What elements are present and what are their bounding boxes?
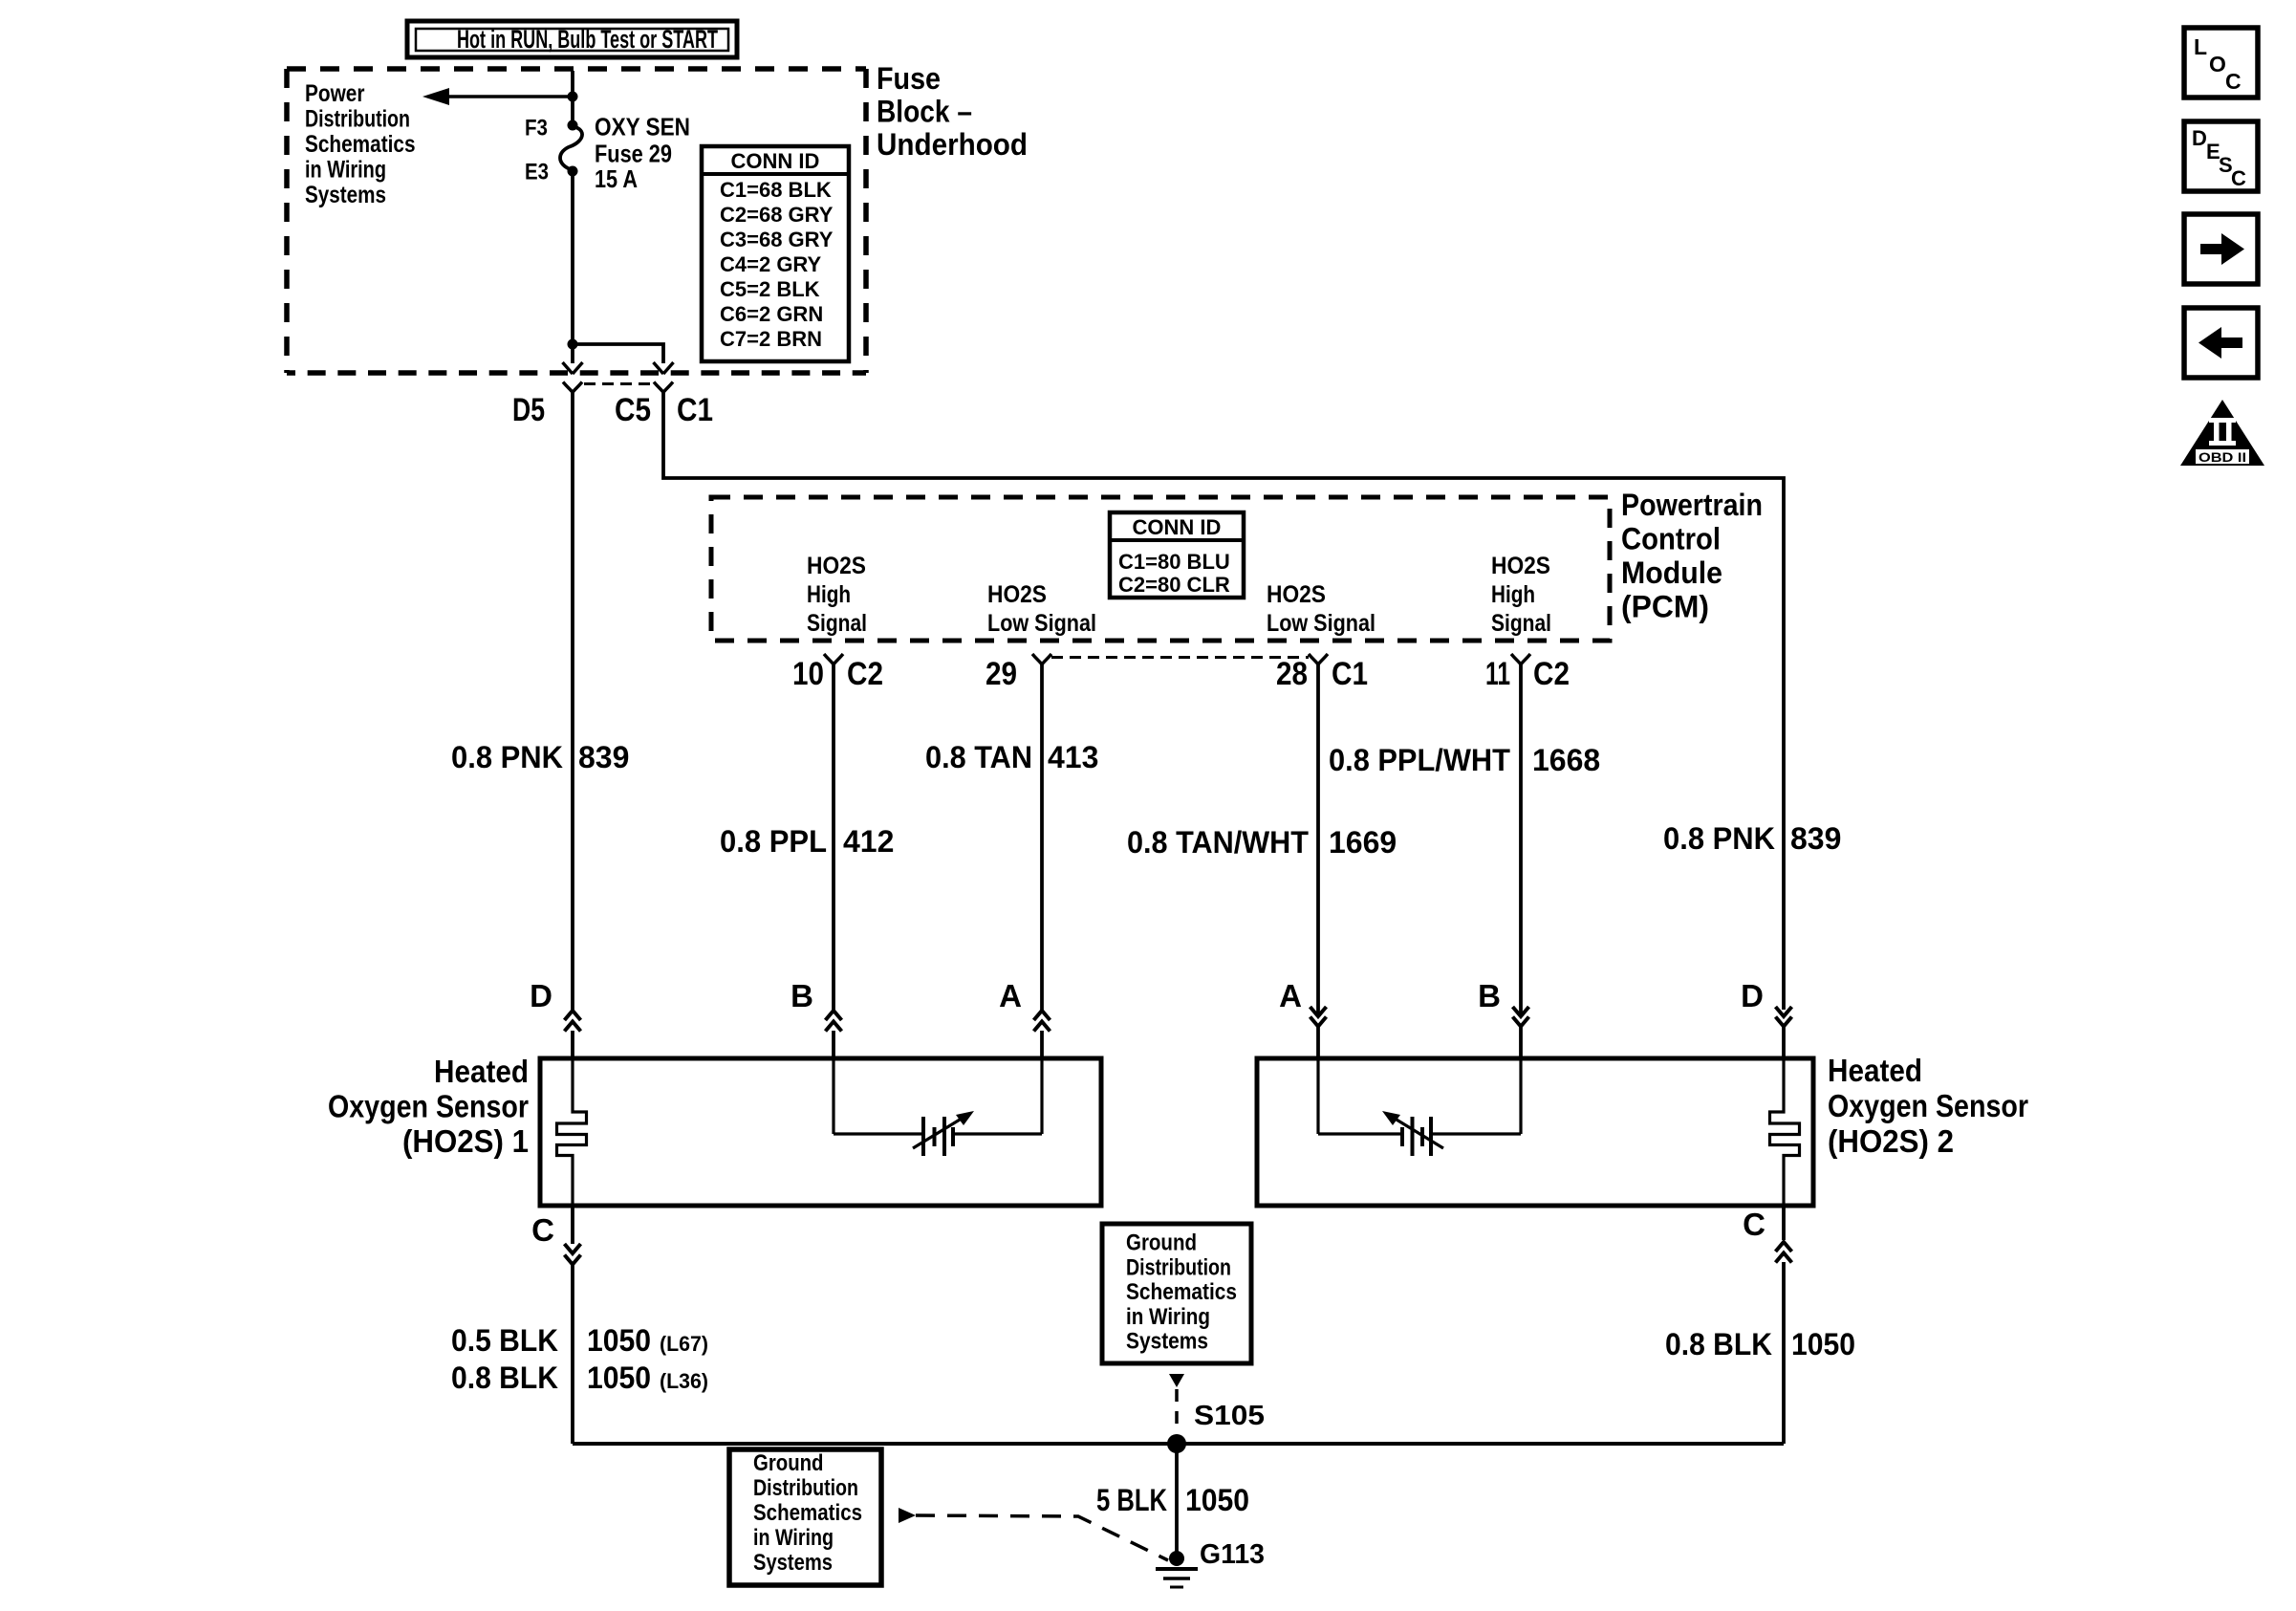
icon box right-arrow bbox=[2184, 214, 2258, 284]
svg-text:1050: 1050 bbox=[1791, 1327, 1855, 1361]
fuse block CONN ID table bbox=[702, 146, 849, 361]
svg-text:C1=80 BLU: C1=80 BLU bbox=[1118, 550, 1230, 574]
open arrow at fuse block exit (left) bbox=[563, 362, 583, 374]
svg-text:C5: C5 bbox=[615, 392, 651, 428]
fuse block underhood dashed box bbox=[287, 66, 866, 72]
wire: HO2S2 C ground lead bbox=[1782, 1206, 1786, 1240]
wire: HO2S1 C ground lead bbox=[571, 1206, 574, 1244]
PCM pin 29 connector fork bbox=[1032, 654, 1051, 664]
svg-text:Powertrain: Powertrain bbox=[1621, 488, 1763, 522]
wire: to fuse block exit D5 bbox=[571, 344, 574, 363]
svg-text:Schematics: Schematics bbox=[1126, 1279, 1237, 1305]
svg-text:Heated: Heated bbox=[434, 1054, 529, 1089]
svg-text:11: 11 bbox=[1485, 656, 1510, 692]
svg-text:Power: Power bbox=[305, 80, 365, 107]
svg-text:C7=2 BRN: C7=2 BRN bbox=[720, 327, 822, 351]
HO2S2 cell wire to B bbox=[1433, 1132, 1521, 1135]
svg-text:A: A bbox=[999, 978, 1022, 1013]
svg-text:Underhood: Underhood bbox=[877, 127, 1028, 162]
wire: hot feed into fuse F29 bbox=[571, 71, 574, 125]
HO2S1 cell wire to A bbox=[954, 1132, 1042, 1135]
PCM pin 28 C1 connector fork bbox=[1309, 654, 1328, 664]
svg-text:0.8 PPL/WHT: 0.8 PPL/WHT bbox=[1329, 743, 1510, 777]
reference arrowhead down from ground note bbox=[1169, 1374, 1184, 1387]
svg-text:CONN ID: CONN ID bbox=[1133, 515, 1222, 539]
junction dot fuse output branch bbox=[568, 339, 578, 350]
svg-text:C1: C1 bbox=[677, 392, 713, 428]
HO2S1 cell wire from B bbox=[832, 1058, 834, 1134]
dashed connector bracket D5-C5 bbox=[584, 382, 653, 385]
svg-text:in Wiring: in Wiring bbox=[305, 157, 386, 184]
Heated Oxygen Sensor (HO2S) 1 box bbox=[540, 1058, 1101, 1206]
svg-text:Signal: Signal bbox=[807, 610, 867, 637]
svg-text:B: B bbox=[1478, 978, 1501, 1013]
svg-text:C: C bbox=[2225, 69, 2242, 94]
wire: 0.8 PNK 839 from D5 to HO2S1 heater D bbox=[571, 393, 574, 1011]
svg-text:C5=2 BLK: C5=2 BLK bbox=[720, 277, 820, 301]
splice S105 junction dot bbox=[1167, 1434, 1186, 1453]
svg-text:(L67): (L67) bbox=[660, 1332, 708, 1356]
svg-text:Distribution: Distribution bbox=[305, 106, 410, 133]
svg-text:Oxygen Sensor: Oxygen Sensor bbox=[1828, 1088, 2028, 1123]
dashed connector bracket 29-28 bbox=[1051, 656, 1309, 659]
svg-text:C2=80 CLR: C2=80 CLR bbox=[1118, 573, 1230, 597]
svg-text:0.8 BLK: 0.8 BLK bbox=[1665, 1327, 1772, 1361]
wire: 0.8 TAN/WHT 1669 HO2S2 low signal bbox=[1316, 664, 1320, 1013]
svg-text:HO2S: HO2S bbox=[987, 581, 1047, 608]
svg-text:0.8 PNK: 0.8 PNK bbox=[1663, 821, 1775, 856]
svg-text:Schematics: Schematics bbox=[305, 131, 416, 158]
svg-text:C2: C2 bbox=[1533, 656, 1570, 692]
Powertrain Control Module dashed box bbox=[711, 497, 1610, 641]
svg-text:Block –: Block – bbox=[877, 95, 972, 129]
svg-text:(L36): (L36) bbox=[660, 1369, 708, 1393]
svg-text:F3: F3 bbox=[525, 116, 548, 142]
wire: 0.8 TAN 413 HO2S low signal bbox=[1040, 664, 1044, 1010]
svg-text:0.5 BLK: 0.5 BLK bbox=[451, 1323, 558, 1358]
svg-text:1050: 1050 bbox=[587, 1361, 651, 1395]
HO2S2 variability arrow (up-left) bbox=[1392, 1117, 1443, 1148]
wire: 5 BLK 1050 to ground G113 bbox=[1175, 1444, 1179, 1558]
PCM pin 10 C2 connector fork bbox=[824, 654, 843, 664]
svg-text:D: D bbox=[1741, 978, 1764, 1013]
svg-text:OBD II: OBD II bbox=[2199, 449, 2246, 465]
svg-text:839: 839 bbox=[578, 740, 629, 774]
dashed reference link to G113 bbox=[916, 1515, 1168, 1560]
svg-text:0.8 TAN: 0.8 TAN bbox=[925, 740, 1032, 774]
svg-text:0.8 PPL: 0.8 PPL bbox=[720, 824, 827, 859]
svg-text:B: B bbox=[791, 978, 813, 1013]
HO2S2 heater element bbox=[1770, 1058, 1800, 1206]
svg-text:A: A bbox=[1279, 978, 1302, 1013]
wire stub into HO2S2 D terminal bbox=[1782, 1027, 1786, 1058]
svg-text:(HO2S) 2: (HO2S) 2 bbox=[1828, 1123, 1954, 1159]
terminal E3 dot bbox=[568, 166, 578, 177]
note box: Ground Distribution Schematics in Wiring Systems (upper) bbox=[1102, 1224, 1251, 1363]
svg-text:L: L bbox=[2194, 34, 2207, 59]
svg-text:Systems: Systems bbox=[1126, 1329, 1208, 1355]
svg-text:Ground: Ground bbox=[753, 1450, 824, 1476]
svg-text:Oxygen Sensor: Oxygen Sensor bbox=[328, 1089, 529, 1124]
svg-text:Systems: Systems bbox=[753, 1550, 833, 1576]
svg-text:Ground: Ground bbox=[1126, 1230, 1197, 1256]
right arrow glyph bbox=[2200, 233, 2244, 265]
ground symbol G113 hash bars bbox=[1156, 1567, 1198, 1571]
CONN ID table header rule bbox=[702, 172, 849, 176]
icon box left-arrow bbox=[2184, 308, 2258, 378]
svg-text:E3: E3 bbox=[525, 160, 549, 185]
wire: 0.8 PNK 839 from C1 across to HO2S2 D bbox=[663, 393, 1784, 1011]
wire: feed to power distribution (left arrow) bbox=[449, 95, 573, 98]
title box outer border bbox=[407, 21, 737, 57]
svg-text:D: D bbox=[530, 978, 552, 1013]
svg-text:0.8 TAN/WHT: 0.8 TAN/WHT bbox=[1127, 825, 1309, 860]
svg-text:S105: S105 bbox=[1194, 1401, 1265, 1431]
connector fork D5 bbox=[563, 382, 582, 393]
svg-text:OXY SEN: OXY SEN bbox=[595, 113, 690, 142]
svg-text:412: 412 bbox=[843, 824, 894, 859]
svg-text:C: C bbox=[1743, 1207, 1765, 1242]
svg-text:CONN ID: CONN ID bbox=[731, 149, 820, 173]
wire: ground bus 1050 bbox=[573, 1442, 1784, 1446]
ground stud dot G113 bbox=[1169, 1551, 1184, 1566]
svg-text:HO2S: HO2S bbox=[807, 553, 866, 579]
svg-text:D5: D5 bbox=[512, 392, 545, 428]
arrowhead to power distribution bbox=[422, 88, 449, 105]
dashed reference link to S105 bbox=[1175, 1389, 1179, 1433]
note box: Ground Distribution Schematics in Wiring Systems (lower) bbox=[729, 1449, 881, 1585]
svg-text:O: O bbox=[2209, 52, 2226, 76]
svg-text:(PCM): (PCM) bbox=[1621, 590, 1709, 624]
svg-text:Hot in RUN, Bulb Test or START: Hot in RUN, Bulb Test or START bbox=[457, 25, 718, 54]
svg-text:Schematics: Schematics bbox=[753, 1500, 862, 1526]
svg-text:in Wiring: in Wiring bbox=[1126, 1304, 1210, 1330]
reference arrowhead from lower ground note bbox=[899, 1508, 916, 1523]
svg-text:C6=2 GRN: C6=2 GRN bbox=[720, 302, 823, 326]
svg-text:Fuse 29: Fuse 29 bbox=[595, 140, 672, 168]
svg-text:Module: Module bbox=[1621, 555, 1722, 590]
wire stub into HO2S1 D terminal bbox=[571, 1031, 574, 1058]
title box inner border bbox=[416, 29, 728, 51]
svg-text:1050: 1050 bbox=[1185, 1483, 1249, 1517]
svg-text:Systems: Systems bbox=[305, 182, 386, 208]
svg-text:C3=68 GRY: C3=68 GRY bbox=[720, 228, 834, 251]
HO2S2 cell wire from A bbox=[1316, 1058, 1319, 1134]
wire: branch to C1 connector bbox=[573, 344, 663, 363]
PCM CONN ID header rule bbox=[1110, 538, 1244, 542]
svg-text:1668: 1668 bbox=[1532, 743, 1600, 777]
svg-text:C4=2 GRY: C4=2 GRY bbox=[720, 252, 822, 276]
svg-text:Distribution: Distribution bbox=[753, 1475, 858, 1501]
fuse OXY SEN Fuse 29 15A element curve bbox=[560, 126, 582, 170]
icon box DESC bbox=[2184, 121, 2258, 191]
svg-text:0.8 PNK: 0.8 PNK bbox=[451, 740, 563, 774]
svg-text:High: High bbox=[807, 581, 851, 608]
svg-text:HO2S: HO2S bbox=[1267, 581, 1326, 608]
svg-text:G113: G113 bbox=[1200, 1539, 1265, 1570]
svg-text:29: 29 bbox=[986, 656, 1017, 692]
svg-text:Low Signal: Low Signal bbox=[987, 610, 1096, 637]
icon box LOC bbox=[2184, 28, 2258, 98]
junction dot at feed branch bbox=[568, 92, 578, 102]
OBD II triangle icon bbox=[2180, 400, 2264, 466]
svg-text:Signal: Signal bbox=[1491, 610, 1551, 637]
PCM pin 11 C2 connector fork bbox=[1511, 654, 1530, 664]
svg-text:Fuse: Fuse bbox=[877, 61, 941, 96]
svg-text:1669: 1669 bbox=[1329, 825, 1397, 860]
open arrow at fuse block exit (right) bbox=[654, 362, 674, 374]
wire: fuse output down bbox=[571, 171, 574, 344]
PCM CONN ID table bbox=[1110, 512, 1244, 598]
svg-text:C1=68 BLK: C1=68 BLK bbox=[720, 178, 832, 202]
svg-text:(HO2S) 1: (HO2S) 1 bbox=[402, 1123, 529, 1159]
wire: 0.8 PPL/WHT 1668 HO2S2 high signal bbox=[1519, 664, 1523, 1013]
svg-text:Heated: Heated bbox=[1828, 1053, 1922, 1088]
svg-text:HO2S: HO2S bbox=[1491, 553, 1550, 579]
svg-text:C1: C1 bbox=[1332, 656, 1368, 692]
svg-text:5 BLK: 5 BLK bbox=[1096, 1483, 1167, 1517]
svg-text:0.8 BLK: 0.8 BLK bbox=[451, 1361, 558, 1395]
HO2S1 variable-voltage sensing cell plates bbox=[921, 1117, 925, 1156]
svg-text:in Wiring: in Wiring bbox=[753, 1525, 834, 1551]
wire: 0.5/0.8 BLK 1050 down to ground bus bbox=[571, 1265, 574, 1444]
svg-text:10: 10 bbox=[792, 656, 824, 692]
HO2S1 heater element bbox=[557, 1058, 587, 1206]
svg-text:413: 413 bbox=[1048, 740, 1098, 774]
svg-text:1050: 1050 bbox=[587, 1323, 651, 1358]
Heated Oxygen Sensor (HO2S) 2 box bbox=[1257, 1058, 1813, 1206]
svg-text:D: D bbox=[2192, 126, 2207, 150]
svg-text:Control: Control bbox=[1621, 522, 1721, 556]
svg-text:C2: C2 bbox=[847, 656, 883, 692]
wire: 0.8 PPL 412 HO2S high signal bbox=[832, 664, 835, 1010]
HO2S1 variability arrow (up-right) bbox=[913, 1117, 964, 1148]
HO2S2 variable-voltage sensing cell plates bbox=[1400, 1127, 1404, 1146]
svg-text:Low Signal: Low Signal bbox=[1267, 610, 1375, 637]
svg-text:15 A: 15 A bbox=[595, 164, 638, 193]
svg-text:C2=68 GRY: C2=68 GRY bbox=[720, 203, 834, 227]
terminal F3 dot bbox=[568, 120, 578, 131]
svg-text:C: C bbox=[531, 1212, 554, 1248]
wire: 0.8 BLK 1050 down to ground bus (right) bbox=[1782, 1262, 1786, 1444]
svg-text:C: C bbox=[2231, 166, 2246, 190]
connector fork C5/C1 bbox=[654, 382, 673, 393]
svg-text:High: High bbox=[1491, 581, 1535, 608]
left arrow glyph bbox=[2199, 327, 2242, 359]
svg-text:28: 28 bbox=[1276, 656, 1308, 692]
svg-text:839: 839 bbox=[1790, 821, 1841, 856]
svg-text:Distribution: Distribution bbox=[1126, 1254, 1231, 1280]
